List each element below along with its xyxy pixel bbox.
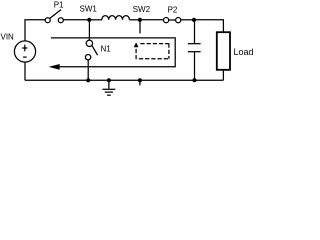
current loop annotation (solid) xyxy=(51,38,175,67)
wire N1 bottom to rail xyxy=(87,60,89,80)
svg-text:P1: P1 xyxy=(54,1,64,10)
wire node to load corner xyxy=(196,20,223,32)
switch P2 (closed) xyxy=(164,18,181,23)
node SW1 xyxy=(87,18,91,22)
resistor Load xyxy=(217,32,230,70)
arrowhead current loop xyxy=(50,65,59,70)
wire VIN top to rail xyxy=(25,20,45,41)
node capacitor bottom xyxy=(192,78,196,82)
wire P2 to node xyxy=(181,19,192,21)
node ground junction xyxy=(107,78,111,82)
wire SW2 stub down xyxy=(139,20,141,34)
transistor switch N1 xyxy=(85,40,97,60)
voltage source VIN xyxy=(14,41,35,62)
switch P1 xyxy=(45,10,63,23)
wire SW1 to inductor xyxy=(89,19,102,21)
wire SW1 down to N1 xyxy=(88,20,90,40)
svg-text:P2: P2 xyxy=(168,5,178,14)
wire SW2 to P2 xyxy=(142,19,163,21)
svg-text:SW1: SW1 xyxy=(80,5,98,14)
inductor xyxy=(102,16,130,20)
svg-text:Load: Load xyxy=(234,47,254,57)
arrowhead dashed loop (up) xyxy=(134,43,138,47)
svg-text:N1: N1 xyxy=(101,44,112,53)
node N1-rail junction xyxy=(86,78,90,82)
wire SW2 rail stub down xyxy=(139,80,141,85)
wire P1 to SW1 xyxy=(63,19,87,21)
node SW2 xyxy=(138,18,142,22)
bottom rail xyxy=(25,79,223,81)
dashed current loop xyxy=(136,44,169,60)
svg-text:VIN: VIN xyxy=(1,33,15,42)
ground xyxy=(103,80,116,95)
svg-text:SW2: SW2 xyxy=(133,5,151,14)
node SW2-rail junction xyxy=(138,78,142,82)
capacitor xyxy=(194,20,196,43)
wire inductor to SW2 xyxy=(129,19,138,21)
node capacitor top xyxy=(192,18,196,22)
wire load bottom to rail xyxy=(222,70,224,81)
wire VIN bottom xyxy=(24,62,26,80)
